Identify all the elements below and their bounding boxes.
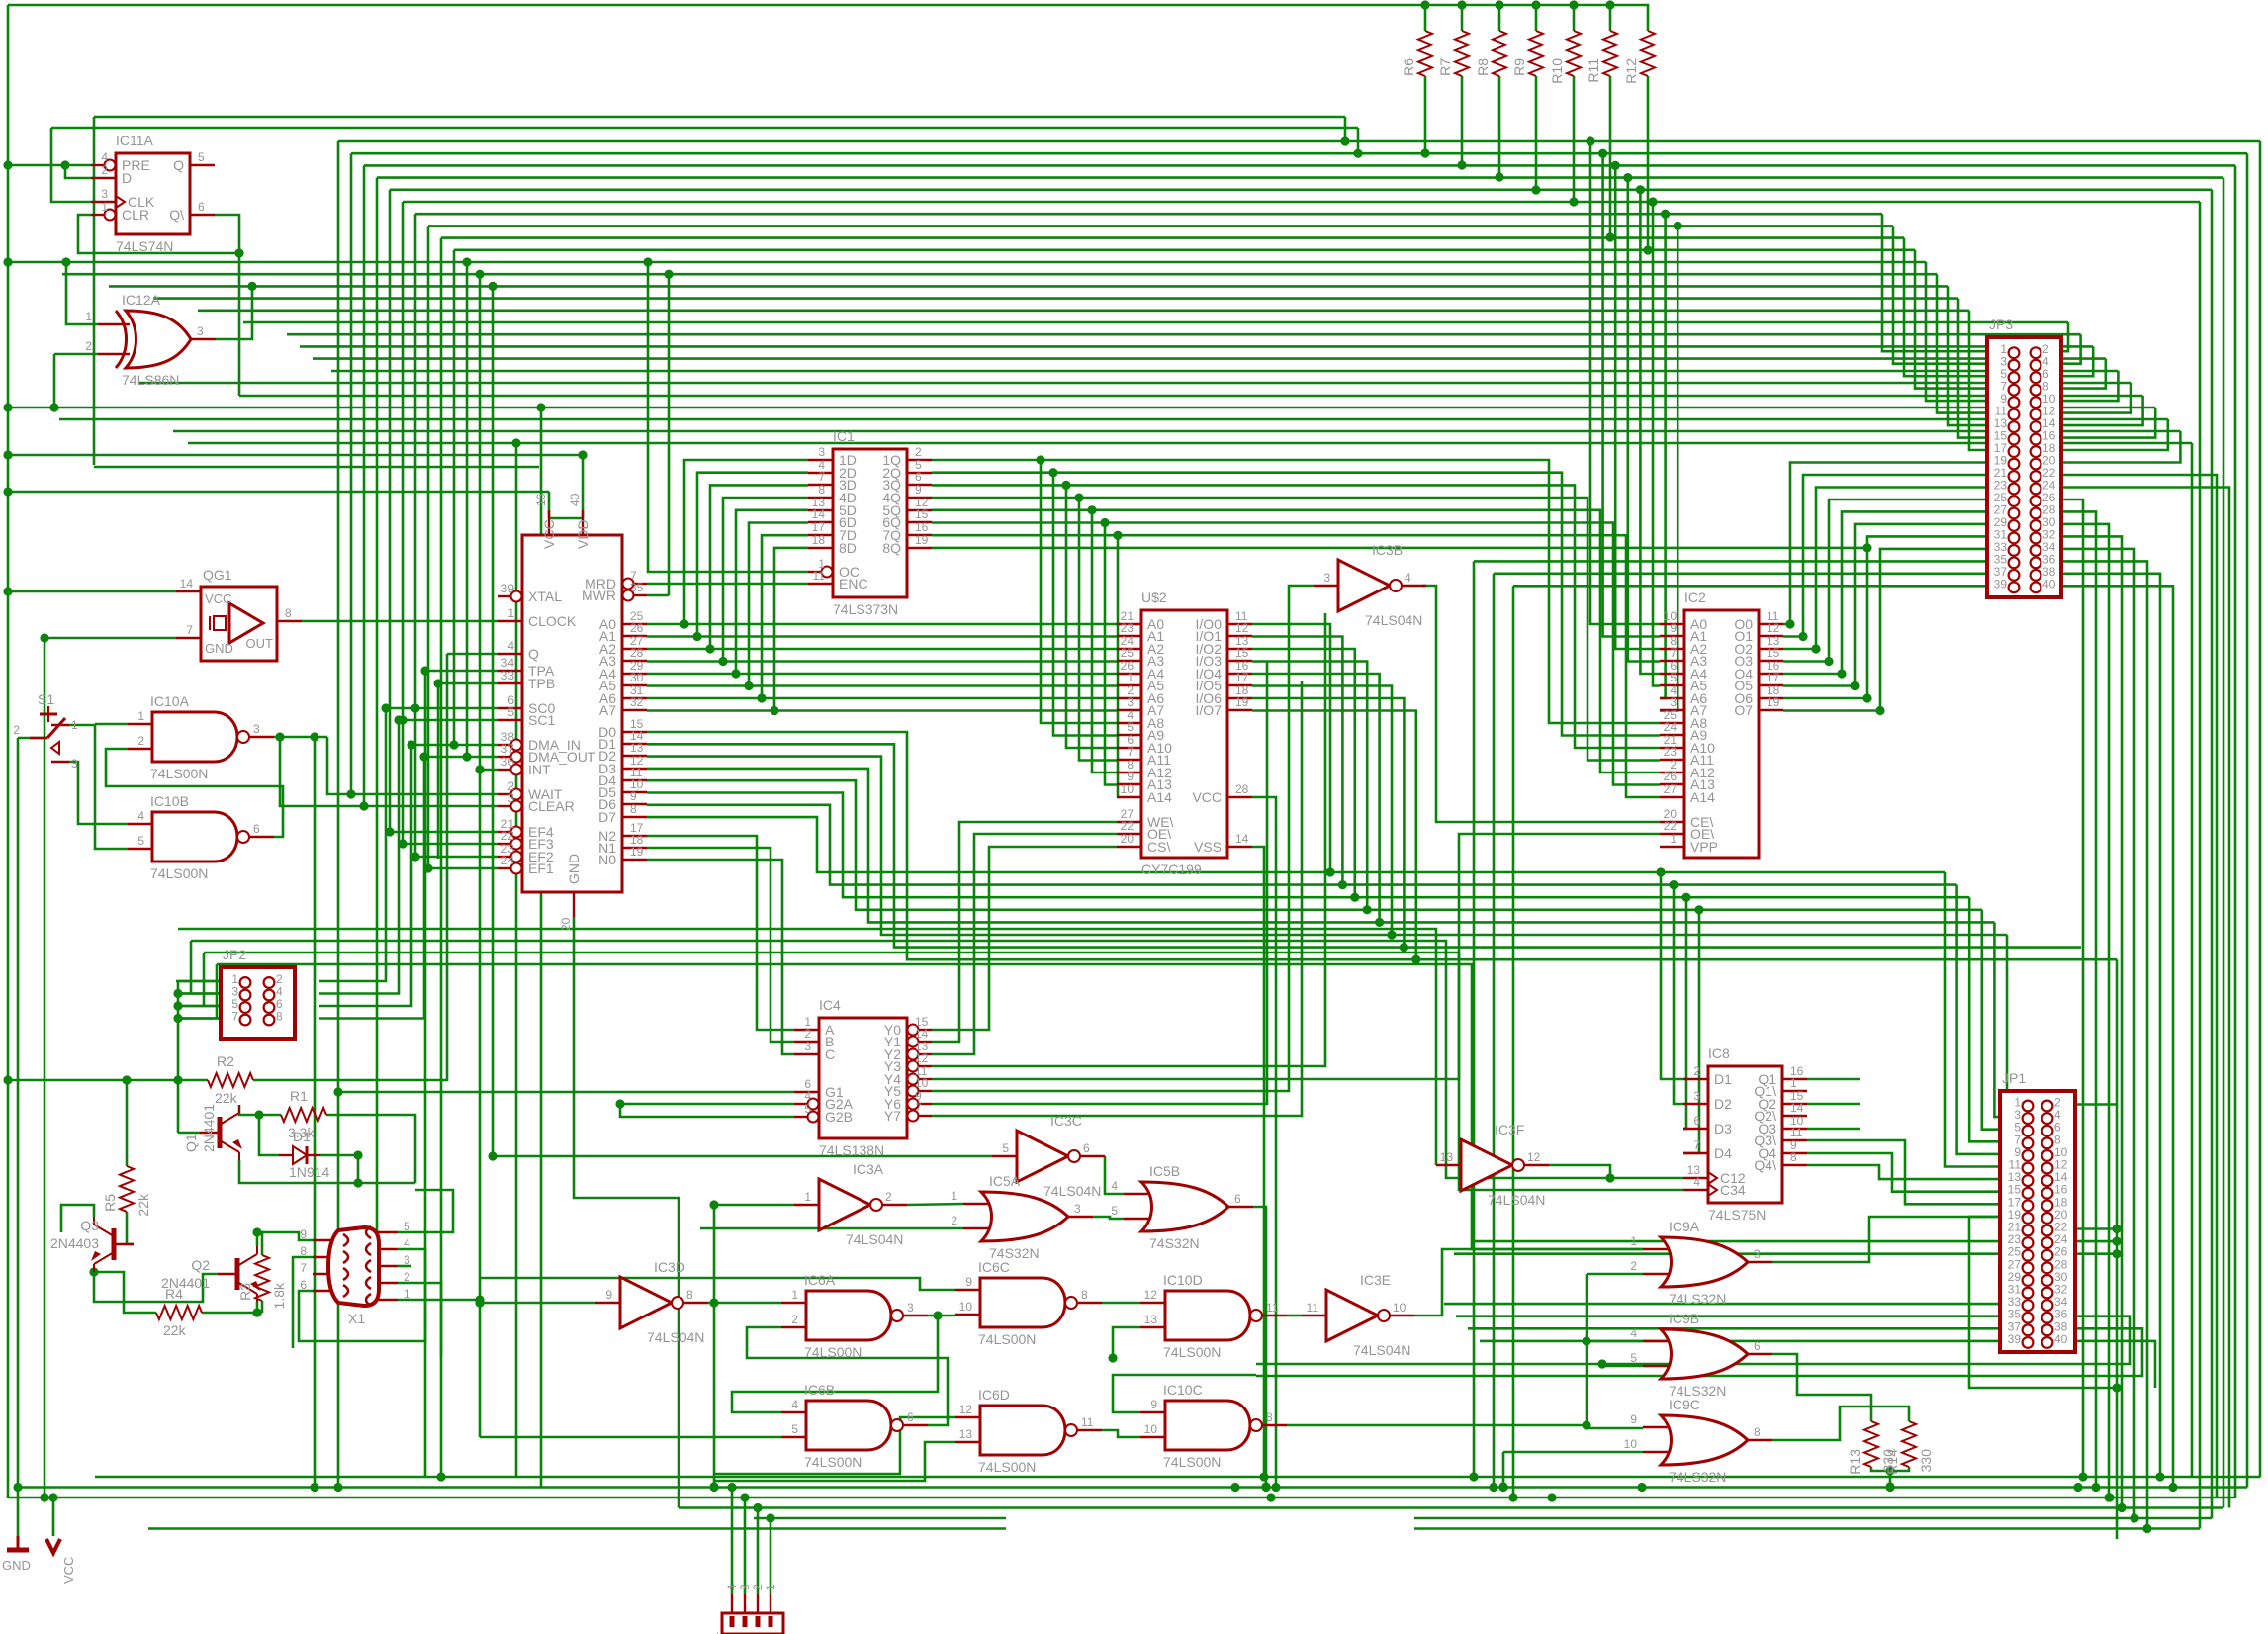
svg-text:5: 5 [791,1422,798,1436]
svg-text:6: 6 [198,200,205,214]
svg-text:IC6C: IC6C [978,1259,1010,1275]
svg-text:3: 3 [253,722,260,736]
svg-text:7: 7 [186,623,193,637]
svg-text:IC2: IC2 [1684,590,1706,605]
svg-text:74LS00N: 74LS00N [804,1454,862,1470]
svg-text:8Q: 8Q [882,540,901,556]
svg-text:6: 6 [1234,1192,1241,1206]
svg-text:IC4: IC4 [819,997,841,1013]
svg-text:3: 3 [804,1040,811,1053]
svg-text:3: 3 [1074,1202,1081,1216]
svg-text:8: 8 [686,1288,693,1302]
svg-text:IC9B: IC9B [1669,1311,1699,1326]
svg-text:7: 7 [1693,1138,1700,1152]
svg-text:JP2: JP2 [223,947,246,962]
svg-text:3: 3 [1754,1247,1761,1261]
svg-text:39: 39 [2008,1332,2022,1346]
svg-text:IC10C: IC10C [1163,1382,1203,1398]
svg-text:12: 12 [959,1403,973,1416]
svg-text:VCC: VCC [1192,789,1222,805]
svg-text:3: 3 [71,757,78,771]
svg-text:3: 3 [1693,1089,1700,1103]
svg-text:10: 10 [959,1300,973,1314]
svg-text:15: 15 [1767,646,1780,660]
svg-text:17: 17 [1235,671,1249,684]
svg-text:VSS: VSS [1194,839,1222,855]
svg-text:IC3D: IC3D [654,1259,685,1275]
svg-text:9: 9 [630,789,637,803]
svg-text:R10: R10 [1549,58,1565,84]
svg-text:39: 39 [501,582,515,595]
svg-text:CLR: CLR [122,207,149,223]
svg-text:23: 23 [1664,745,1678,759]
svg-text:5: 5 [1630,1351,1637,1365]
svg-text:9: 9 [1670,621,1677,635]
svg-text:3: 3 [738,1584,752,1590]
svg-text:S1: S1 [38,691,54,707]
svg-text:74LS75N: 74LS75N [1708,1207,1766,1223]
svg-text:D2: D2 [1714,1096,1732,1112]
svg-text:VCC: VCC [541,519,557,549]
svg-text:7: 7 [1127,745,1134,759]
svg-text:IC3C: IC3C [1050,1113,1082,1129]
svg-text:74S32N: 74S32N [1149,1235,1200,1251]
svg-text:74LS138N: 74LS138N [819,1142,884,1158]
svg-text:2: 2 [915,445,922,459]
svg-text:IC3F: IC3F [1495,1122,1524,1137]
svg-text:1: 1 [1790,1076,1797,1090]
svg-text:37: 37 [501,742,515,756]
svg-text:R7: R7 [1437,58,1453,76]
svg-text:5: 5 [1127,720,1134,734]
svg-text:2: 2 [885,1190,892,1204]
svg-text:19: 19 [630,845,644,859]
svg-text:XTAL: XTAL [528,589,562,604]
svg-text:1: 1 [137,709,144,723]
svg-text:74LS74N: 74LS74N [116,238,173,254]
svg-text:4: 4 [1693,1175,1700,1189]
svg-text:6: 6 [915,470,922,484]
svg-text:74LS04N: 74LS04N [846,1231,903,1247]
svg-text:15: 15 [915,507,929,521]
svg-text:4: 4 [791,1398,798,1411]
svg-text:2: 2 [13,723,20,737]
svg-text:13: 13 [630,741,644,755]
svg-text:Q: Q [528,646,539,662]
svg-text:18: 18 [812,533,826,547]
svg-text:Q3: Q3 [80,1218,99,1233]
svg-text:23: 23 [1121,621,1134,635]
svg-text:2: 2 [404,1270,410,1284]
svg-text:330: 330 [1918,1449,1934,1473]
svg-text:GND: GND [566,854,582,884]
svg-text:8: 8 [1266,1410,1273,1424]
svg-text:2: 2 [791,1313,798,1326]
svg-text:22k: 22k [163,1322,187,1338]
svg-text:8: 8 [1754,1425,1761,1439]
svg-text:6: 6 [253,822,260,836]
svg-text:5: 5 [507,705,514,719]
svg-text:2: 2 [101,163,108,177]
svg-text:D4: D4 [1714,1145,1732,1161]
svg-text:10: 10 [1144,1422,1158,1436]
svg-text:8: 8 [1081,1288,1088,1302]
svg-text:24: 24 [1664,720,1678,734]
svg-text:10: 10 [915,1076,929,1090]
svg-text:12: 12 [1767,621,1780,635]
svg-text:7: 7 [231,1010,238,1024]
svg-text:11: 11 [1307,1301,1319,1315]
svg-text:35: 35 [630,581,644,594]
svg-text:13: 13 [1144,1313,1158,1326]
svg-text:74LS04N: 74LS04N [1365,612,1422,628]
svg-text:40: 40 [2054,1332,2068,1346]
svg-text:1: 1 [71,718,78,732]
svg-text:Y7: Y7 [884,1108,901,1124]
svg-text:22: 22 [501,829,515,843]
svg-text:CY7C199: CY7C199 [1141,862,1202,877]
svg-text:26: 26 [630,621,644,635]
svg-text:CLOCK: CLOCK [528,613,577,629]
svg-text:MWR: MWR [582,588,616,603]
svg-text:R11: R11 [1586,58,1601,83]
svg-text:74LS00N: 74LS00N [150,766,208,781]
svg-text:74LS00N: 74LS00N [1163,1454,1221,1470]
svg-text:IC6D: IC6D [978,1387,1010,1403]
svg-text:7: 7 [915,1101,922,1115]
svg-text:8: 8 [285,606,292,620]
svg-text:19: 19 [1235,695,1249,709]
svg-text:IC8: IC8 [1708,1045,1730,1061]
svg-text:2: 2 [804,1027,811,1041]
svg-text:IC10D: IC10D [1163,1272,1203,1288]
svg-text:6: 6 [1754,1339,1761,1353]
svg-text:4: 4 [725,1584,739,1590]
svg-text:11: 11 [1790,1126,1803,1139]
svg-text:26: 26 [1664,770,1678,783]
svg-text:4: 4 [507,639,514,653]
svg-text:74LS00N: 74LS00N [978,1459,1036,1475]
svg-text:17: 17 [1767,671,1780,684]
svg-text:74LS04N: 74LS04N [1488,1192,1545,1208]
svg-text:1N914: 1N914 [289,1164,329,1180]
svg-text:R12: R12 [1623,58,1639,84]
svg-text:VCC: VCC [61,1557,76,1584]
svg-text:22k: 22k [136,1193,151,1217]
svg-text:2: 2 [1630,1259,1637,1273]
svg-text:2: 2 [751,1584,765,1590]
svg-text:28: 28 [1235,782,1249,796]
svg-text:2: 2 [137,734,144,748]
svg-text:20: 20 [1121,832,1134,846]
svg-text:9: 9 [1150,1398,1157,1411]
svg-text:3: 3 [1670,695,1677,709]
svg-text:1: 1 [404,1287,410,1301]
svg-text:9: 9 [300,1227,307,1241]
svg-text:2N4401: 2N4401 [161,1275,210,1291]
svg-text:TPB: TPB [528,676,555,691]
svg-text:JP3: JP3 [1989,317,2013,332]
svg-text:74LS373N: 74LS373N [833,601,898,617]
svg-text:28: 28 [630,646,644,660]
svg-text:33: 33 [501,669,515,682]
svg-text:9: 9 [1630,1412,1637,1426]
svg-text:VDD: VDD [575,519,590,549]
svg-text:Q2: Q2 [191,1257,210,1273]
svg-text:CS\: CS\ [1147,839,1170,855]
svg-text:D1: D1 [1714,1071,1732,1087]
svg-text:10: 10 [1393,1301,1406,1315]
svg-text:1: 1 [951,1189,957,1203]
svg-text:8D: 8D [839,540,857,556]
svg-text:9: 9 [1127,770,1134,783]
svg-text:6: 6 [1083,1141,1090,1155]
svg-text:11: 11 [1081,1415,1094,1429]
svg-text:12: 12 [1144,1288,1158,1302]
svg-text:R5: R5 [102,1194,118,1212]
svg-text:15: 15 [1235,646,1249,660]
svg-text:QG1: QG1 [203,567,232,583]
svg-text:8: 8 [276,1010,283,1024]
svg-text:R14: R14 [1884,1449,1900,1475]
svg-text:IC11A: IC11A [116,133,154,148]
svg-text:IC9A: IC9A [1669,1219,1700,1234]
svg-text:17: 17 [812,520,826,534]
svg-text:4: 4 [1630,1326,1637,1340]
svg-text:8: 8 [300,1244,307,1258]
svg-text:6: 6 [907,1410,914,1424]
svg-text:IC3A: IC3A [853,1161,884,1177]
svg-text:Q: Q [173,157,184,173]
svg-text:39: 39 [1994,577,2008,590]
svg-text:GND: GND [205,641,233,656]
svg-text:A7: A7 [599,702,616,718]
svg-text:22k: 22k [215,1090,238,1106]
svg-text:22: 22 [1664,819,1678,833]
svg-text:G2B: G2B [825,1109,853,1125]
svg-text:30: 30 [630,671,644,684]
svg-text:7: 7 [1670,646,1677,660]
svg-text:R8: R8 [1475,58,1491,76]
svg-text:3: 3 [197,324,204,338]
svg-text:1: 1 [101,200,108,214]
svg-text:74LS00N: 74LS00N [150,865,208,881]
svg-text:10: 10 [1624,1437,1638,1451]
svg-text:3: 3 [404,1253,410,1267]
svg-text:6: 6 [1693,1114,1700,1128]
svg-text:74LS32N: 74LS32N [1669,1291,1726,1307]
svg-text:10: 10 [1121,782,1134,796]
svg-text:74LS00N: 74LS00N [978,1331,1036,1347]
svg-text:C34: C34 [1720,1182,1746,1198]
svg-text:5: 5 [1111,1204,1118,1218]
svg-text:R13: R13 [1847,1449,1862,1475]
svg-text:74LS04N: 74LS04N [647,1329,704,1345]
svg-text:9: 9 [965,1275,972,1289]
svg-text:3: 3 [1127,695,1134,709]
svg-text:C: C [825,1046,835,1062]
svg-text:IC5A: IC5A [989,1173,1021,1189]
svg-text:2N4401: 2N4401 [201,1104,217,1152]
svg-text:13: 13 [1440,1150,1454,1164]
svg-text:11: 11 [813,569,826,583]
svg-text:8: 8 [630,802,637,816]
svg-text:74LS00N: 74LS00N [1163,1344,1221,1360]
svg-text:14: 14 [1790,1101,1804,1115]
svg-text:32: 32 [630,695,644,709]
svg-text:8: 8 [818,483,825,497]
svg-text:D1: D1 [293,1129,311,1144]
svg-text:12: 12 [1235,621,1249,635]
svg-text:4: 4 [1405,571,1411,585]
svg-text:1: 1 [1670,832,1677,846]
svg-text:INT: INT [528,762,551,777]
svg-text:40: 40 [568,493,582,506]
svg-text:3: 3 [507,791,514,805]
svg-text:R2: R2 [217,1053,234,1069]
svg-text:16: 16 [534,493,548,506]
svg-text:1: 1 [85,310,92,323]
svg-text:74LS04N: 74LS04N [1043,1183,1101,1199]
svg-text:IC9C: IC9C [1669,1397,1700,1412]
svg-text:IC1: IC1 [833,428,855,444]
svg-text:1: 1 [1630,1234,1637,1248]
svg-text:2: 2 [1693,1064,1700,1078]
svg-text:5: 5 [804,1102,811,1116]
svg-text:4: 4 [404,1236,410,1250]
svg-text:5: 5 [1670,671,1677,684]
svg-text:74LS00N: 74LS00N [804,1344,862,1360]
svg-text:8: 8 [1790,1150,1797,1164]
svg-text:13: 13 [959,1427,973,1441]
svg-text:1: 1 [764,1584,777,1590]
svg-text:IC12A: IC12A [122,292,161,308]
svg-text:R3: R3 [237,1283,253,1301]
svg-text:40: 40 [2042,577,2056,590]
svg-text:U$2: U$2 [1141,590,1167,605]
svg-text:X1: X1 [348,1311,365,1326]
svg-text:VCC: VCC [205,591,231,606]
svg-text:R6: R6 [1401,58,1416,76]
svg-text:IC10A: IC10A [150,693,190,709]
svg-text:5: 5 [137,834,144,848]
svg-text:74LS86N: 74LS86N [122,372,179,388]
svg-text:IC3B: IC3B [1372,542,1403,558]
svg-text:Q4\: Q4\ [1754,1157,1776,1173]
svg-text:3: 3 [907,1301,914,1315]
svg-text:1: 1 [804,1190,811,1204]
svg-text:16: 16 [915,520,929,534]
svg-text:74LS32N: 74LS32N [1669,1469,1726,1485]
svg-text:4: 4 [137,809,144,823]
svg-text:27: 27 [1664,782,1678,796]
svg-text:R1: R1 [290,1088,308,1104]
svg-text:EF1: EF1 [528,861,554,876]
svg-text:1: 1 [1127,671,1134,684]
svg-text:D7: D7 [598,809,616,825]
svg-text:36: 36 [501,755,515,769]
svg-text:1: 1 [791,1288,798,1302]
svg-text:A14: A14 [1690,789,1715,805]
svg-text:1: 1 [507,606,514,620]
svg-text:5: 5 [404,1220,410,1233]
svg-text:I/O7: I/O7 [1196,702,1223,718]
svg-text:JP1: JP1 [2002,1070,2026,1086]
svg-text:Q1: Q1 [183,1134,199,1152]
svg-text:4: 4 [1111,1179,1118,1193]
svg-text:4: 4 [101,150,108,164]
svg-text:OUT: OUT [246,636,274,651]
svg-text:19: 19 [915,533,929,547]
svg-text:9: 9 [915,483,922,497]
svg-text:IC5B: IC5B [1149,1163,1180,1179]
svg-text:2N4403: 2N4403 [50,1235,99,1251]
svg-text:22: 22 [1121,819,1134,833]
svg-text:SC1: SC1 [528,712,555,728]
svg-text:5: 5 [198,150,205,164]
svg-text:14: 14 [812,507,826,521]
svg-text:14: 14 [1235,832,1249,846]
svg-text:7: 7 [818,470,825,484]
svg-text:VPP: VPP [1690,839,1718,855]
svg-text:3: 3 [101,187,108,201]
svg-text:3: 3 [1323,571,1330,585]
svg-text:19: 19 [1767,695,1780,709]
svg-text:7: 7 [300,1261,307,1275]
svg-text:IC6A: IC6A [804,1272,836,1288]
svg-text:IC3E: IC3E [1360,1272,1391,1288]
svg-text:9: 9 [605,1288,612,1302]
svg-text:34: 34 [501,656,515,670]
svg-text:A14: A14 [1147,789,1172,805]
svg-text:14: 14 [180,577,194,590]
svg-text:24: 24 [501,854,515,867]
svg-text:6: 6 [300,1278,307,1292]
svg-text:2: 2 [85,339,92,353]
svg-text:1.8k: 1.8k [271,1282,287,1309]
svg-text:GND: GND [2,1558,31,1573]
svg-text:25: 25 [1121,646,1134,660]
svg-text:12: 12 [915,1051,929,1065]
svg-text:11: 11 [1266,1301,1279,1315]
svg-text:D: D [122,170,132,186]
svg-text:3: 3 [818,445,825,459]
svg-text:O7: O7 [1734,702,1753,718]
svg-text:4: 4 [804,1089,811,1103]
svg-text:5: 5 [1002,1141,1009,1155]
svg-text:2: 2 [951,1214,957,1227]
svg-text:ENC: ENC [839,576,868,591]
svg-text:74LS04N: 74LS04N [1353,1342,1410,1358]
svg-text:Q\: Q\ [169,207,184,223]
svg-text:14: 14 [915,1027,929,1041]
svg-text:20: 20 [559,917,573,931]
svg-text:12: 12 [1527,1150,1541,1164]
svg-text:R9: R9 [1511,58,1527,76]
svg-text:IC10B: IC10B [150,793,189,809]
svg-text:D3: D3 [1714,1121,1732,1136]
svg-text:N0: N0 [598,852,616,867]
svg-text:IC6B: IC6B [804,1382,835,1398]
svg-text:CLEAR: CLEAR [528,798,575,814]
